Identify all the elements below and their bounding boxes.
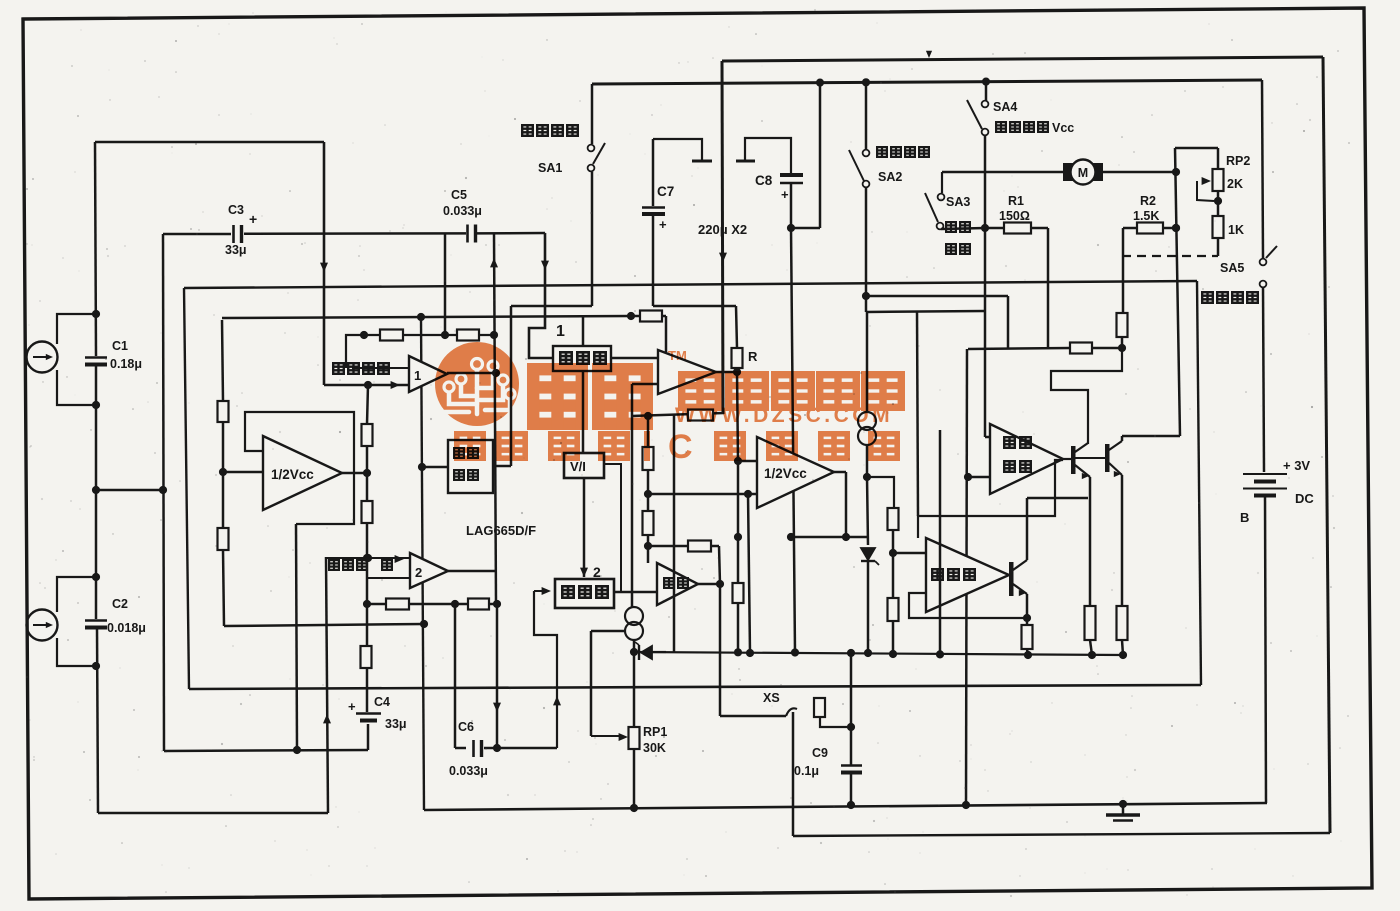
svg-text:TM: TM [668,348,687,363]
svg-text:WWW.DZSC.COM: WWW.DZSC.COM [675,404,893,427]
svg-text:C: C [668,428,693,466]
